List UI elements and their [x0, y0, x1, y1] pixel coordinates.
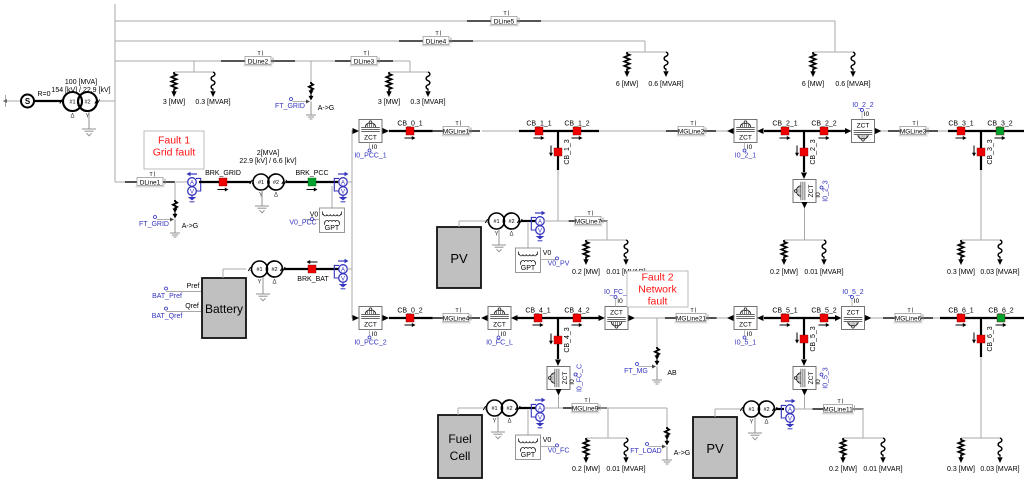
wire: ZCT to MGLine3: [881, 130, 890, 132]
svg-text:#2: #2: [84, 100, 90, 106]
svg-text:A: A: [538, 219, 542, 225]
svg-text:FT_GRID: FT_GRID: [275, 103, 305, 110]
svg-text:CB_0_2: CB_0_2: [397, 307, 422, 314]
wire: MGLine7 to load tee: [602, 220, 607, 222]
svg-text:CB_5_2: CB_5_2: [811, 307, 836, 314]
fault FT_MG (AB): [655, 347, 659, 356]
svg-text:MGLine9: MGLine9: [572, 406, 599, 413]
load 0.3 MW (bus3): [958, 240, 963, 260]
svg-text:I0_FC_C: I0_FC_C: [577, 364, 584, 392]
wire: CB_6 bus segment: [933, 317, 940, 319]
label box Fault 1 Grid fault: [144, 131, 204, 169]
zero-sequence CT ZCT (I0_2_2): [852, 120, 875, 143]
svg-text:CB_6_1: CB_6_1: [948, 307, 973, 314]
svg-text:CB_6_3: CB_6_3: [987, 326, 994, 351]
ammeter/voltmeter (fuel cell): [535, 399, 543, 401]
svg-text:0.2 [MW]: 0.2 [MW]: [829, 466, 857, 473]
load 0.2 MW (bus2): [781, 240, 786, 260]
svg-text:CB_6_2: CB_6_2: [988, 307, 1013, 314]
svg-text:I0_2_1: I0_2_1: [735, 153, 757, 160]
svg-text:ZCT: ZCT: [739, 135, 752, 142]
load tee wires (TLine2 loads): [193, 61, 195, 72]
wire: CB_2 bus segment: [764, 130, 845, 132]
svg-text:ZCT: ZCT: [364, 135, 377, 142]
wire: MGLine21 to ZCT: [716, 317, 729, 319]
svg-text:BRK_GRID: BRK_GRID: [205, 170, 241, 177]
load 0.01 MVAR (bus2): [822, 240, 826, 259]
potential transformer GPT (V0_FC): [516, 435, 541, 460]
wire: battery meters to MG bus: [347, 268, 352, 270]
load tee for TLine4: [627, 51, 666, 53]
circuit breaker CB_6_3 (load feeder): [980, 318, 982, 357]
load 0.3 MVAR (TLine3): [426, 72, 430, 91]
wire: down to load tee (x=981): [980, 170, 982, 240]
svg-text:ZCT: ZCT: [739, 322, 752, 329]
svg-text:V: V: [538, 228, 542, 234]
svg-text:Fault 1: Fault 1: [158, 135, 190, 147]
battery unit: [202, 278, 246, 338]
svg-text:#1: #1: [748, 407, 754, 413]
wire: down to load tee (x=804): [804, 209, 806, 241]
load 0.3 MW (bus6): [958, 438, 963, 458]
zero-sequence CT ZCT vertical (I0_2_3): [793, 180, 816, 203]
svg-text:Pref: Pref: [187, 283, 200, 290]
svg-text:A: A: [341, 180, 345, 186]
wire: CB_4 bus segment: [517, 317, 599, 319]
svg-text:CB_1_3: CB_1_3: [564, 139, 571, 164]
svg-text:fault: fault: [648, 295, 668, 307]
svg-text:I0_PCC_2: I0_PCC_2: [354, 340, 386, 347]
svg-text:A->G: A->G: [182, 223, 199, 230]
svg-text:DLine1: DLine1: [140, 180, 161, 187]
svg-text:A->G: A->G: [318, 105, 335, 112]
source S1 (grid equivalent): [21, 95, 34, 108]
transmission line TLine3: [335, 60, 351, 62]
svg-text:CB_5_3: CB_5_3: [810, 326, 817, 351]
load 0.01 MVAR (PV2 feeder): [881, 438, 885, 457]
load 0.2 MW (PV feeder): [583, 240, 588, 260]
line MGLine11: [813, 408, 824, 410]
svg-text:#1: #1: [256, 267, 262, 273]
wire: down to bottom-right load tee: [980, 357, 982, 438]
zero-sequence CT ZCT vertical (I0_FC_C): [547, 367, 570, 390]
svg-text:CB_2_3: CB_2_3: [810, 139, 817, 164]
svg-text:MGLine1: MGLine1: [443, 129, 470, 136]
svg-text:I0_2_2: I0_2_2: [852, 102, 874, 109]
wire: meters to MGLine7: [544, 220, 568, 222]
wire: microgrid vertical bus: [351, 130, 353, 318]
svg-text:0.01 [MVAR]: 0.01 [MVAR]: [606, 466, 645, 473]
wire: FT_MG branch: [656, 318, 658, 347]
svg-text:#1: #1: [69, 100, 75, 106]
svg-text:I0: I0: [815, 379, 822, 385]
load 0.2 MW (FC feeder): [583, 438, 588, 458]
load 0.3 MVAR (TLine2): [211, 72, 215, 91]
svg-text:V0_FC: V0_FC: [548, 448, 570, 455]
ground (T6 primary): [754, 417, 756, 433]
svg-text:I0: I0: [372, 144, 378, 151]
svg-text:Battery: Battery: [205, 302, 243, 316]
load 6 MW (TLine5): [810, 52, 815, 72]
line MGLine2: [666, 130, 678, 132]
wire: CB_1_3 down to PV branch: [557, 170, 559, 221]
line MGLine21: [665, 317, 676, 319]
wire: MGLine1 to CB_1 bus: [482, 130, 519, 132]
line MGLine7: [569, 220, 576, 222]
fault FT_LOAD (A->G): [665, 427, 669, 436]
svg-text:I0_FC_I: I0_FC_I: [604, 289, 629, 296]
svg-text:Δ: Δ: [509, 232, 513, 238]
svg-text:6 [MW]: 6 [MW]: [616, 81, 638, 88]
transmission line TLine5: [467, 20, 491, 22]
svg-text:0.03 [MVAR]: 0.03 [MVAR]: [980, 269, 1019, 276]
svg-text:MGLine11: MGLine11: [823, 407, 853, 414]
ammeter/voltmeter (grid side): [190, 173, 198, 175]
load tee for TLine5: [813, 51, 853, 53]
wire: CB_3 bus segment: [948, 130, 1024, 132]
wire: MGLine3 to CB_3 bus: [938, 130, 948, 132]
wire: source to transformer T1: [34, 100, 62, 102]
svg-text:ZCT: ZCT: [364, 322, 377, 329]
svg-text:DLine4: DLine4: [426, 39, 447, 46]
zero-sequence CT ZCT (I0_5_2): [842, 307, 865, 330]
svg-text:CB_3_3: CB_3_3: [987, 139, 994, 164]
svg-text:CB_3_2: CB_3_2: [987, 120, 1012, 127]
svg-text:AB: AB: [667, 370, 677, 377]
load 0.01 MVAR (FC feeder): [624, 438, 628, 457]
svg-text:CB_0_1: CB_0_1: [397, 120, 422, 127]
wire: meters to MGLine11: [794, 408, 820, 410]
svg-text:FT_LOAD: FT_LOAD: [630, 448, 662, 455]
svg-text:0.3 [MW]: 0.3 [MW]: [947, 466, 975, 473]
svg-text:3 [MW]: 3 [MW]: [163, 99, 185, 106]
wire: MGLine2 to ZCT: [716, 130, 729, 132]
svg-text:100 [MVA]: 100 [MVA]: [65, 79, 97, 86]
PV unit 1: [437, 227, 481, 288]
svg-text:A->G: A->G: [674, 450, 691, 457]
wire: top distribution verticals and rows: [114, 4, 116, 182]
svg-text:#2: #2: [506, 406, 512, 412]
wire: meters to MG bus: [347, 181, 352, 183]
svg-text:V0: V0: [310, 212, 319, 219]
svg-text:V: V: [341, 276, 345, 282]
svg-text:CB_4_2: CB_4_2: [564, 307, 589, 314]
svg-text:0.6 [MVAR]: 0.6 [MVAR]: [835, 81, 870, 88]
wire: GPT stub at PCC: [331, 186, 333, 208]
svg-text:GPT: GPT: [521, 265, 536, 272]
fuel cell unit: [438, 415, 482, 478]
wire: CB_1 bus segment: [519, 130, 599, 132]
svg-text:I0_PCC_1: I0_PCC_1: [354, 153, 386, 160]
svg-text:0.03 [MVAR]: 0.03 [MVAR]: [980, 466, 1019, 473]
wire: T4 to BRK_BAT to meters: [284, 268, 339, 270]
svg-text:BAT_Pref: BAT_Pref: [152, 293, 182, 300]
wire: to FT_MG junction: [635, 317, 668, 319]
svg-text:I0_2_3: I0_2_3: [823, 180, 830, 202]
svg-text:I0: I0: [569, 379, 576, 385]
svg-text:Fuel: Fuel: [448, 432, 471, 446]
wire: T6 to meters: [776, 408, 784, 410]
wire: ZCT to CB_0_1: [389, 130, 433, 132]
svg-text:A: A: [190, 180, 194, 186]
wire: meters to MGLine9: [544, 407, 569, 409]
svg-text:Qref: Qref: [185, 303, 199, 310]
wire: GPT stub (PV): [527, 223, 529, 248]
wire: down to fuel cell branch: [558, 396, 560, 409]
svg-text:Cell: Cell: [450, 449, 471, 463]
svg-text:6 [MW]: 6 [MW]: [802, 81, 824, 88]
svg-text:0.2 [MW]: 0.2 [MW]: [572, 466, 600, 473]
svg-text:0.3 [MVAR]: 0.3 [MVAR]: [195, 99, 230, 106]
load 3 MW (TLine3): [386, 72, 391, 91]
svg-text:A: A: [341, 267, 345, 273]
svg-text:Y: Y: [494, 232, 498, 238]
svg-text:#2: #2: [273, 180, 279, 186]
svg-text:MGLine21: MGLine21: [676, 316, 706, 323]
svg-text:R=0: R=0: [37, 91, 50, 98]
wire: MGLine4 to ZCT: [482, 317, 483, 319]
svg-text:#2: #2: [508, 219, 514, 225]
svg-text:I0: I0: [747, 144, 753, 151]
node BAT_Pref input: [165, 287, 168, 290]
line MGLine1: [432, 130, 443, 132]
load 0.01 MVAR (PV feeder): [624, 240, 628, 259]
line MGLine4: [432, 317, 443, 319]
svg-text:MGLine6: MGLine6: [895, 316, 922, 323]
ground (T5 primary): [497, 416, 499, 432]
fault FT_GRID (top feeder A->G): [310, 61, 312, 82]
svg-text:0.3 [MW]: 0.3 [MW]: [947, 269, 975, 276]
load 0.03 MVAR (bus3): [998, 240, 1002, 259]
svg-text:I0: I0: [501, 331, 507, 338]
svg-text:I0: I0: [815, 192, 822, 198]
wire: GPT stub (FC): [527, 410, 529, 435]
svg-text:GPT: GPT: [325, 225, 340, 232]
label box Fault 2 Network fault: [627, 271, 688, 307]
wire: fuel cell to transformer T5: [457, 408, 459, 415]
transmission line TLine4: [399, 40, 423, 42]
node BAT_Qref input: [165, 307, 168, 310]
zero-sequence CT ZCT (I0_2_1): [734, 120, 757, 143]
svg-text:V: V: [788, 416, 792, 422]
svg-text:MGLine2: MGLine2: [678, 129, 705, 136]
load 6 MW (TLine4): [624, 52, 629, 72]
svg-text:I0_FC_L: I0_FC_L: [486, 340, 513, 347]
transmission line TLine1: [125, 181, 137, 183]
circuit breaker CB_5_3 (feeder to PV2): [803, 318, 805, 359]
wire: T5 to meters: [519, 407, 536, 409]
load 3 MW (TLine2): [171, 72, 176, 91]
svg-text:0.2 [MW]: 0.2 [MW]: [770, 269, 798, 276]
wire: T3 to meters: [521, 220, 536, 222]
potential transformer GPT (V0_PV): [516, 248, 541, 273]
svg-text:I0: I0: [864, 111, 870, 118]
svg-text:V0: V0: [543, 437, 552, 444]
svg-text:#1: #1: [493, 219, 499, 225]
svg-text:A: A: [538, 406, 542, 412]
svg-text:FT_GRID: FT_GRID: [139, 221, 169, 228]
line MGLine9: [563, 407, 572, 409]
svg-text:#2: #2: [271, 267, 277, 273]
wire: source stub: [3, 100, 21, 102]
svg-text:CB_5_1: CB_5_1: [772, 307, 797, 314]
wire: down to PV2 branch: [804, 396, 806, 410]
svg-text:GPT: GPT: [521, 452, 536, 459]
ammeter/voltmeter (PV2): [785, 400, 793, 402]
svg-text:A: A: [788, 407, 792, 413]
svg-text:I0_5_2: I0_5_2: [842, 289, 864, 296]
svg-text:FT_MG: FT_MG: [624, 368, 648, 375]
ammeter/voltmeter (PV): [535, 212, 543, 214]
svg-text:DLine3: DLine3: [354, 59, 375, 66]
svg-text:3 [MW]: 3 [MW]: [378, 99, 400, 106]
wire: CB_5 bus segment: [764, 317, 835, 319]
svg-text:0.3 [MVAR]: 0.3 [MVAR]: [410, 99, 445, 106]
zero-sequence CT ZCT (I0_PCC_1): [352, 130, 357, 132]
svg-text:MGLine3: MGLine3: [900, 129, 927, 136]
zero-sequence CT ZCT (I0_FC_I): [605, 307, 628, 330]
svg-text:CB_2_1: CB_2_1: [772, 120, 797, 127]
wire: row A left: [115, 181, 131, 183]
ammeter/voltmeter (PCC side): [338, 173, 346, 175]
transformer T1 154kV/22.9kV: [60, 100, 65, 104]
transformer T6 (PV2): [740, 407, 745, 411]
wire: FT_LOAD branch: [666, 408, 668, 427]
svg-text:V: V: [538, 415, 542, 421]
svg-text:I0: I0: [747, 331, 753, 338]
ground (T1 secondary): [88, 112, 90, 129]
svg-text:0.6 [MVAR]: 0.6 [MVAR]: [648, 81, 683, 88]
svg-text:0.01 [MVAR]: 0.01 [MVAR]: [863, 466, 902, 473]
ground (T2 primary): [261, 190, 263, 206]
svg-text:Δ: Δ: [70, 114, 74, 120]
svg-text:Y: Y: [257, 280, 261, 286]
circuit breaker CB_4_3 (feeder to fuel cell): [557, 318, 559, 359]
svg-text:CB_4_1: CB_4_1: [525, 307, 550, 314]
svg-text:ZCT: ZCT: [610, 310, 623, 317]
svg-text:DLine2: DLine2: [248, 59, 269, 66]
svg-text:Δ: Δ: [274, 193, 278, 199]
potential transformer GPT (V0_PCC): [320, 208, 345, 233]
svg-text:V0_PCC: V0_PCC: [289, 220, 316, 227]
svg-text:0.01 [MVAR]: 0.01 [MVAR]: [804, 269, 843, 276]
svg-text:#1: #1: [258, 180, 264, 186]
wire: PV to transformer T3: [458, 221, 460, 227]
load 0.03 MVAR (bus6): [998, 438, 1002, 457]
svg-text:154 [kV] / 22.9 [kV]: 154 [kV] / 22.9 [kV]: [51, 87, 110, 94]
svg-text:I0: I0: [854, 298, 860, 305]
svg-text:V0_PV: V0_PV: [548, 261, 570, 268]
circuit breaker CB_2_3 (load feeder): [803, 131, 805, 172]
load 0.6 MVAR (TLine5): [851, 52, 855, 71]
zero-sequence CT ZCT (I0_5_1): [734, 307, 757, 330]
svg-text:22.9 [kV] / 6.6 [kV]: 22.9 [kV] / 6.6 [kV]: [239, 158, 296, 165]
svg-text:#2: #2: [763, 407, 769, 413]
svg-text:V0: V0: [543, 250, 552, 257]
transformer T5 (fuel cell): [483, 406, 488, 410]
svg-text:I0: I0: [617, 298, 623, 305]
svg-text:PV: PV: [450, 251, 468, 266]
line MGLine3: [888, 130, 900, 132]
wire: FT_GRID branch on row A: [174, 182, 176, 200]
fault FT_GRID (PCC A->G): [173, 200, 177, 209]
svg-text:I0_5_1: I0_5_1: [735, 340, 757, 347]
svg-text:Network: Network: [638, 283, 677, 295]
svg-text:V: V: [190, 189, 194, 195]
line MGLine6: [883, 317, 895, 319]
wire: ZCT to MGLine6: [871, 317, 885, 319]
svg-text:MGLine4: MGLine4: [443, 316, 470, 323]
wire: T2 to BRK_PCC: [286, 181, 338, 183]
svg-text:I0_5_3: I0_5_3: [823, 367, 830, 389]
svg-text:ZCT: ZCT: [493, 322, 506, 329]
svg-text:CB_2_2: CB_2_2: [811, 120, 836, 127]
svg-text:BAT_Qref: BAT_Qref: [152, 313, 183, 320]
svg-text:Grid fault: Grid fault: [153, 146, 196, 158]
svg-text:ZCT: ZCT: [847, 310, 860, 317]
svg-text:BRK_BAT: BRK_BAT: [297, 276, 329, 283]
PV unit 2: [693, 417, 737, 478]
svg-text:I0: I0: [372, 331, 378, 338]
wire: row A DLine1 to meters: [176, 181, 189, 183]
svg-text:S: S: [25, 97, 31, 106]
wire: PV2 to transformer T6: [714, 409, 716, 417]
svg-text:2[MVA]: 2[MVA]: [257, 150, 279, 157]
wire: battery to transformer T4: [222, 269, 224, 278]
wire: MGLine2 segment: [599, 130, 668, 132]
svg-text:Y: Y: [492, 419, 496, 425]
svg-text:Δ: Δ: [764, 420, 768, 426]
svg-text:CB_1_1: CB_1_1: [526, 120, 551, 127]
circuit breaker CB_1_3 (feeder to PV): [557, 131, 559, 170]
ground (T4 primary): [262, 277, 264, 294]
wire: meters to BRK_GRID to T2: [199, 181, 251, 183]
svg-text:Δ: Δ: [507, 419, 511, 425]
wire: MGLine11 to load tee: [853, 408, 863, 410]
svg-text:CB_3_1: CB_3_1: [948, 120, 973, 127]
svg-text:CB_1_2: CB_1_2: [564, 120, 589, 127]
svg-text:DLine5: DLine5: [494, 19, 515, 26]
transmission line TLine2: [221, 60, 245, 62]
breaker BRK_BAT: [310, 261, 318, 263]
transformer T3 (PV): [485, 219, 490, 223]
svg-text:BRK_PCC: BRK_PCC: [295, 170, 328, 177]
wire: T1 to feeder bus: [99, 100, 115, 102]
wire: ZCT to CB_0_2: [389, 317, 433, 319]
load 0.6 MVAR (TLine4): [664, 52, 668, 71]
svg-text:Fault 2: Fault 2: [641, 272, 673, 284]
svg-text:Y: Y: [749, 420, 753, 426]
ammeter/voltmeter (battery): [338, 260, 346, 262]
wire: ZCT FC_I segment: [599, 317, 601, 319]
svg-text:#1: #1: [491, 406, 497, 412]
zero-sequence CT ZCT (I0_PCC_2): [352, 317, 357, 319]
zero-sequence CT ZCT vertical (I0_5_3): [793, 367, 816, 390]
load 0.2 MW (PV2 feeder): [840, 438, 845, 458]
svg-text:ZCT: ZCT: [857, 123, 870, 130]
svg-text:CB_4_3: CB_4_3: [564, 327, 571, 352]
ground (T3 primary): [498, 229, 500, 245]
load tee wires (TLine3 loads): [389, 71, 428, 73]
svg-text:PV: PV: [706, 441, 724, 456]
wire: MGLine9 to load tee and FT_LOAD: [600, 407, 667, 409]
svg-text:Δ: Δ: [272, 280, 276, 286]
transformer T2 22.9kV/6.6kV: [250, 180, 255, 184]
circuit breaker CB_3_3 (load feeder): [980, 131, 982, 170]
zero-sequence CT ZCT (I0_FC_L): [488, 307, 511, 330]
svg-text:MGLine7: MGLine7: [575, 219, 602, 226]
transformer T4 (battery): [248, 267, 253, 271]
